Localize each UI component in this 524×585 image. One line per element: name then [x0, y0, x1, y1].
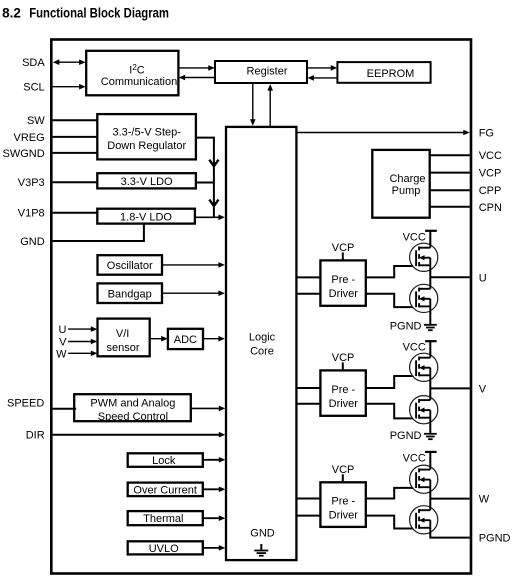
svg-text:EEPROM: EEPROM [367, 68, 415, 80]
svg-text:Functional Block Diagram: Functional Block Diagram [29, 5, 169, 20]
svg-text:W: W [479, 494, 490, 506]
transistor W low-side [410, 505, 438, 535]
svg-text:Pre -: Pre - [331, 496, 355, 508]
svg-text:V: V [59, 337, 67, 349]
svg-text:GND: GND [20, 236, 45, 248]
wire W output to pin [430, 498, 470, 500]
wire W low-side source to PGND pin [430, 534, 470, 538]
wire step-down regulator output to drop line [196, 138, 214, 218]
svg-text:Pre -: Pre - [331, 384, 355, 396]
svg-text:UVLO: UVLO [149, 543, 179, 555]
block Thermal [128, 511, 203, 525]
wire VCP stub U [342, 252, 344, 260]
wire SPEED [53, 408, 77, 410]
wire V1P8 [53, 212, 99, 214]
block PWM and Analog Speed Control [74, 394, 191, 423]
svg-text:Down Regulator: Down Regulator [107, 140, 186, 152]
svg-text:SWGND: SWGND [3, 148, 45, 160]
svg-text:ADC: ADC [174, 334, 197, 346]
wire SDA bidirectional [53, 59, 86, 65]
block Logic Core [226, 127, 296, 560]
wire FG from Logic Core to border [296, 130, 470, 136]
wire Over Current to Logic Core [203, 487, 226, 493]
wire pre-driver V low-side gate [366, 404, 418, 419]
svg-text:VCC: VCC [403, 232, 426, 244]
transistor U low-side [410, 284, 438, 314]
arrow chevron lower on drop line [209, 200, 218, 207]
block Oscillator [98, 255, 163, 275]
block Register [215, 61, 307, 83]
wire W phase node between FETs [429, 493, 431, 505]
svg-text:VCP: VCP [332, 464, 355, 476]
svg-text:Over Current: Over Current [133, 484, 197, 496]
wire V/I sensor to ADC [150, 336, 168, 342]
wire U output to pin [430, 276, 470, 278]
svg-text:Thermal: Thermal [143, 513, 183, 525]
svg-text:Charge: Charge [389, 173, 425, 185]
transistor V high-side [410, 353, 438, 383]
wire Charge Pump VCC [429, 154, 470, 156]
outer border frame [51, 40, 471, 574]
svg-text:Pump: Pump [392, 185, 421, 197]
svg-text:VCP: VCP [332, 242, 355, 254]
ground symbol inside Logic Core [254, 544, 268, 556]
svg-text:SPEED: SPEED [7, 398, 44, 410]
svg-text:Logic: Logic [249, 331, 276, 343]
svg-text:I2C: I2C [129, 63, 145, 77]
wire Register to EEPROM [307, 65, 337, 71]
transistor W high-side [410, 464, 438, 494]
wire pre-driver U high-side gate [366, 266, 418, 277]
block 3.3-/5-V Step-Down Regulator [97, 114, 196, 159]
wire UVLO to Logic Core [203, 545, 226, 551]
block Bandgap [98, 283, 163, 303]
svg-text:Pre -: Pre - [331, 274, 355, 286]
wire pre-driver U inputs from Logic Core [296, 277, 322, 293]
svg-text:Driver: Driver [329, 509, 359, 521]
svg-text:W: W [56, 348, 67, 360]
wire PWM block to Logic Core [191, 406, 226, 412]
wire pre-driver W low-side gate [366, 516, 418, 529]
svg-text:3.3-/5-V Step-: 3.3-/5-V Step- [112, 127, 181, 139]
wire Bandgap to Logic Core [162, 290, 225, 296]
wire 3.3-V LDO output [196, 182, 214, 184]
svg-text:Speed Control: Speed Control [98, 411, 168, 423]
wire V to V/I sensor [68, 339, 97, 345]
svg-text:U: U [479, 272, 487, 284]
svg-text:PWM and Analog: PWM and Analog [90, 398, 175, 410]
block 3.3-V LDO [97, 173, 196, 188]
block EEPROM [337, 62, 430, 83]
svg-text:Bandgap: Bandgap [108, 288, 152, 300]
block V/I sensor [98, 319, 150, 357]
svg-text:VCC: VCC [479, 150, 502, 162]
wire U phase node between FETs [429, 271, 431, 284]
svg-text:PGND: PGND [390, 430, 422, 442]
arrow chevron upper on drop line [209, 160, 218, 167]
wire pre-driver V inputs from Logic Core [296, 388, 322, 404]
wire pre-driver W high-side gate [366, 488, 418, 499]
wire V phase node between FETs [429, 381, 431, 395]
block Lock [128, 453, 203, 467]
svg-text:GND: GND [250, 528, 275, 540]
svg-text:sensor: sensor [106, 342, 139, 354]
wire U low-side source to ground [429, 313, 431, 325]
block ADC [168, 329, 203, 349]
svg-text:Communication: Communication [101, 76, 177, 88]
svg-text:FG: FG [479, 128, 494, 140]
svg-text:U: U [59, 324, 67, 336]
wire U to V/I sensor [68, 326, 97, 332]
wire 1.8-V LDO output to Logic Core [195, 215, 225, 221]
wire Lock to Logic Core [203, 457, 226, 463]
svg-text:V3P3: V3P3 [18, 177, 45, 189]
ground symbol V (PGND) [424, 434, 437, 439]
svg-text:VCC: VCC [403, 342, 426, 354]
svg-text:Driver: Driver [329, 288, 359, 300]
svg-text:V1P8: V1P8 [18, 208, 45, 220]
svg-text:Driver: Driver [329, 398, 359, 410]
svg-text:Register: Register [247, 65, 288, 77]
wire V3P3 [53, 181, 99, 183]
svg-text:SCL: SCL [23, 82, 44, 94]
wire W to V/I sensor [68, 351, 97, 357]
svg-text:CPN: CPN [479, 202, 502, 214]
pre-driver U [320, 260, 365, 305]
wire pre-driver W inputs from Logic Core [296, 499, 322, 516]
svg-text:8.2: 8.2 [2, 5, 21, 20]
svg-text:SW: SW [27, 115, 45, 127]
block 1.8-V LDO [97, 209, 195, 224]
svg-text:V: V [479, 383, 487, 395]
pre-driver W [320, 482, 365, 527]
wire VREG [53, 136, 99, 138]
svg-text:3.3-V LDO: 3.3-V LDO [121, 176, 173, 188]
svg-text:1.8-V LDO: 1.8-V LDO [120, 211, 172, 223]
wire DIR to Logic Core [53, 432, 226, 438]
wire Register to Logic Core [250, 84, 256, 126]
wire Oscillator to Logic Core [162, 262, 225, 268]
block I2C Communication [86, 51, 178, 96]
svg-text:SDA: SDA [22, 57, 45, 69]
wire ADC to Logic Core [203, 336, 225, 342]
svg-text:Core: Core [250, 345, 274, 357]
svg-text:PGND: PGND [390, 321, 422, 333]
wire pre-driver V high-side gate [366, 376, 418, 388]
wire pre-driver U low-side gate [366, 294, 418, 307]
wire Charge Pump CPN [429, 206, 470, 208]
VCC rail bar V [425, 341, 437, 354]
block Charge Pump [372, 150, 429, 218]
svg-text:Lock: Lock [152, 455, 176, 467]
wire SCL [53, 84, 86, 90]
transistor V low-side [410, 395, 438, 425]
wire Logic Core to Register [267, 84, 273, 126]
transistor U high-side [410, 242, 438, 272]
heading 8.2 Functional Block Diagram [2, 5, 169, 20]
wire Thermal to Logic Core [203, 515, 226, 521]
svg-text:Oscillator: Oscillator [107, 260, 153, 272]
wire VCP stub V [342, 362, 344, 370]
svg-text:PGND: PGND [479, 533, 511, 545]
wire EEPROM to Register [307, 75, 337, 81]
svg-text:VCP: VCP [332, 352, 355, 364]
ground symbol U (PGND) [424, 325, 437, 330]
wire SWGND [53, 152, 99, 154]
svg-text:VCP: VCP [479, 168, 502, 180]
VCC rail bar W [425, 452, 437, 466]
VCC rail bar U [425, 231, 437, 244]
wire Charge Pump VCP [429, 172, 470, 174]
wire VCP stub W [342, 474, 344, 482]
pre-driver V [320, 370, 365, 415]
wire Register to I2C [179, 75, 215, 81]
wire GND to 1.8-V LDO bottom [53, 223, 144, 241]
svg-text:VCC: VCC [403, 452, 426, 464]
wire V low-side source to ground [429, 424, 431, 433]
svg-text:VREG: VREG [14, 132, 45, 144]
wire I2C to Register [178, 65, 214, 71]
svg-text:DIR: DIR [26, 430, 45, 442]
svg-text:CPP: CPP [479, 185, 502, 197]
block UVLO [128, 541, 203, 555]
wire V output to pin [430, 387, 470, 389]
block Over Current [128, 483, 203, 497]
svg-text:V/I: V/I [116, 328, 129, 340]
wire SW [53, 119, 99, 121]
wire Charge Pump CPP [429, 189, 470, 191]
